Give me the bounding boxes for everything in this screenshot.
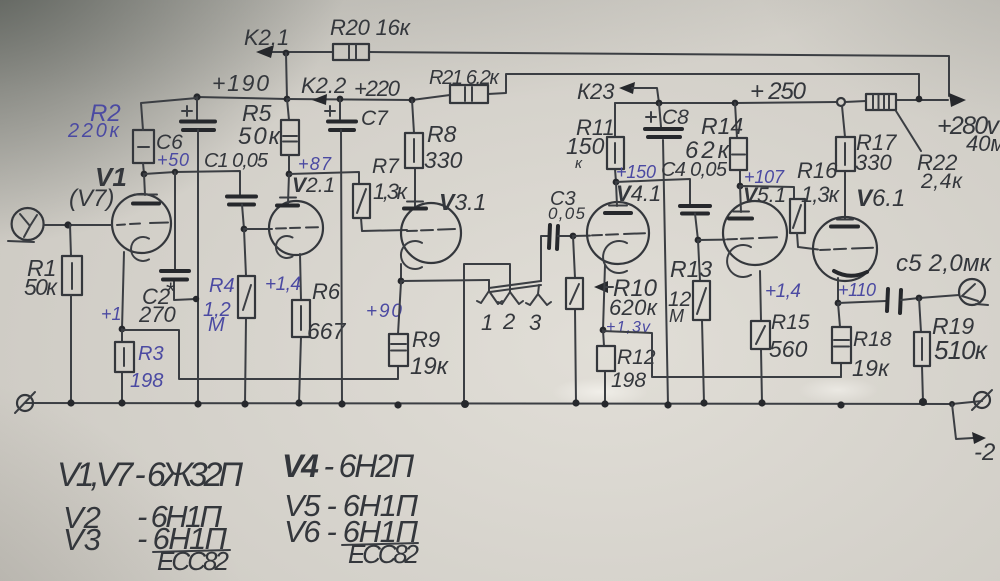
tube V5 grid dashes (727, 237, 777, 239)
svg-text:620к: 620к (609, 295, 659, 320)
ground symbol left (17, 395, 33, 411)
svg-text:2: 2 (502, 309, 515, 334)
svg-text:62к: 62к (685, 137, 731, 164)
wire R5 bottom to V2 anode node (288, 155, 290, 174)
svg-text:R14: R14 (701, 113, 743, 139)
svg-text:к: к (575, 155, 583, 172)
wire +1 feedback L-line to R9 bottom (122, 330, 398, 379)
R22 pointer line (896, 111, 921, 151)
wire R2 top to +190 (141, 98, 197, 130)
wire grid node into V4 (573, 235, 590, 237)
capacitor C7 stem (339, 99, 341, 119)
wire pin3 riser to C3 (541, 236, 548, 281)
node K2.1 arrow (256, 45, 274, 58)
tube V6 envelope (813, 217, 877, 281)
wire K23 to +250 (632, 88, 659, 103)
wire V1 cathode down (122, 252, 124, 329)
node R17 open circle (837, 98, 845, 106)
svg-text:50к: 50к (24, 274, 58, 300)
wire anode node to C1 (144, 171, 240, 196)
junction C2 to ground line (193, 296, 199, 302)
resistor R12 (597, 346, 615, 371)
resistor R11 (607, 137, 624, 169)
tube V5 cathode arc (727, 245, 751, 277)
svg-text:+ 250: + 250 (750, 78, 807, 105)
svg-text:R12: R12 (617, 346, 656, 369)
resistor R8 (405, 133, 423, 168)
pin 2 (498, 283, 523, 304)
svg-text:-2: -2 (974, 439, 995, 466)
svg-text:K2.1: K2.1 (244, 25, 289, 50)
wire C5 to output node (901, 295, 959, 300)
svg-text:+190: +190 (212, 70, 269, 96)
tube V5 anode (733, 186, 749, 212)
wire V3 cathode node (400, 264, 402, 281)
tube V1 cathode arc (131, 237, 149, 261)
wire +220 line to R21 and feedback riser (287, 74, 919, 100)
wire +190 bus (197, 97, 287, 99)
tube V6 grid dashes (820, 248, 873, 250)
junction R8 tap (409, 97, 416, 104)
svg-text:330: 330 (424, 147, 463, 173)
svg-text:*: * (165, 278, 175, 305)
wire node to R12 (603, 330, 605, 404)
svg-text:R21 6.2к: R21 6.2к (429, 67, 501, 89)
junction R14 node (732, 100, 739, 107)
svg-text:1: 1 (481, 310, 493, 335)
svg-text:0,05: 0,05 (548, 204, 586, 223)
svg-text:510к: 510к (934, 335, 989, 365)
junction C8 node (656, 100, 663, 107)
ground symbol right (974, 392, 990, 408)
junction V4 grid node (570, 233, 577, 240)
capacitor C2 plates (161, 271, 189, 280)
capacitor C4 plates (680, 206, 710, 214)
wire anode node to R7 (289, 172, 359, 184)
resistor R10 (566, 278, 583, 309)
wire R11 stem (615, 103, 616, 182)
svg-text:667: 667 (307, 318, 347, 344)
svg-text:C8: C8 (662, 106, 689, 129)
svg-text:198: 198 (130, 370, 163, 392)
wire R7 bottom to V3 grid (361, 218, 407, 231)
svg-text:+1,4: +1,4 (265, 274, 301, 295)
output connector X2 (959, 279, 985, 305)
svg-text:+150: +150 (616, 162, 656, 182)
tube V4 anode (609, 182, 627, 206)
junction V5 anode node (737, 183, 744, 190)
resistor R21 (450, 85, 488, 103)
svg-text:R4: R4 (209, 275, 235, 297)
junction V5 grid node (695, 237, 702, 244)
wire R12 branch to line B (603, 331, 841, 377)
wire anode node to R16 (740, 186, 794, 199)
resistor R16 (790, 199, 805, 233)
resistor R4 (238, 276, 255, 318)
wire R19 stem (919, 298, 923, 402)
wire C6 to ground vertical (197, 130, 199, 404)
svg-text:R13: R13 (670, 256, 712, 282)
tube V3 anode (407, 201, 423, 203)
resistor R2 (133, 130, 154, 163)
svg-text:V2.1: V2.1 (292, 174, 335, 197)
tube V3 envelope (401, 203, 461, 263)
svg-text:1,3к: 1,3к (373, 179, 409, 204)
wire node to R18 (838, 303, 841, 377)
node K2.2 arrow (312, 94, 327, 105)
wire R2 bottom junction (143, 163, 144, 174)
junction +1,3 node (600, 327, 607, 334)
svg-text:270: 270 (138, 302, 176, 327)
wire grid node into V2 (244, 228, 272, 230)
svg-text:V6.1: V6.1 (856, 185, 905, 212)
capacitor C7 plates (328, 122, 356, 131)
svg-text:3: 3 (529, 310, 542, 335)
capacitor C1 plates (227, 197, 256, 205)
junction R19 node (916, 295, 923, 302)
svg-text:150: 150 (566, 133, 605, 159)
wire grid node down to R1 (70, 225, 71, 256)
svg-text:1,3к: 1,3к (801, 182, 841, 207)
resistor R5 (281, 120, 299, 155)
wire grid node into V5 (698, 239, 725, 241)
svg-text:R8: R8 (427, 121, 457, 147)
capacitor C8 stem (659, 103, 661, 127)
R10 pointer arrow (594, 281, 608, 293)
wire V2 cathode to R6 (299, 254, 301, 403)
svg-text:C7: C7 (361, 107, 389, 130)
wire R16 to V6 grid (797, 233, 818, 250)
wire -2 branch (952, 404, 973, 439)
wire V3 cathode to splitter pins (401, 280, 489, 281)
wire top feedback line from K2.1 through R20 to +280 (262, 52, 949, 96)
junction +190 right (284, 96, 291, 103)
wire C7 to ground (341, 130, 342, 404)
svg-text:198: 198 (611, 369, 646, 392)
tube V2 cathode arc (276, 236, 293, 258)
svg-text:R15: R15 (771, 311, 810, 334)
splitter frame (464, 264, 510, 403)
wire +250 rail (615, 100, 948, 103)
wire C4 to V5 grid node (695, 214, 698, 241)
junction C7 tap (337, 96, 344, 103)
junction V2 grid node (241, 226, 248, 233)
resistor R7 (353, 184, 370, 218)
tube V4 grid dashes (592, 233, 645, 235)
wire K2.1 drop to +190 bus (286, 53, 287, 99)
resistor R3 (115, 342, 134, 372)
svg-text:C1 0,05: C1 0,05 (204, 150, 269, 172)
svg-text:50к: 50к (238, 123, 282, 150)
svg-text:V3.1: V3.1 (439, 189, 486, 215)
junction R22 right (916, 96, 923, 103)
node K23 arrow (619, 82, 635, 94)
svg-text:V4 - 6Н2П: V4 - 6Н2П (282, 448, 415, 484)
tube V1 anode plate (133, 202, 159, 206)
svg-text:R20 16к: R20 16к (330, 15, 412, 40)
wire grid node down to R13 (698, 240, 704, 403)
wire grid node down to R4 (244, 229, 246, 404)
tube V2 anode stem (280, 174, 296, 203)
svg-text:40м: 40м (966, 131, 1000, 156)
wire V4 cathode down (603, 265, 605, 330)
svg-text:R3: R3 (138, 343, 164, 365)
svg-text:+1,4: +1,4 (765, 281, 801, 302)
-2 arrow (972, 432, 986, 444)
junction +110 node (835, 300, 842, 307)
resistor R5 top stem (287, 99, 289, 120)
input connector X1 (12, 208, 44, 240)
wire +110 node to C5 (838, 301, 886, 303)
svg-text:V3: V3 (63, 522, 101, 557)
pin 3 (526, 285, 551, 305)
svg-text:V1,V7 - 6Ж32П: V1,V7 - 6Ж32П (57, 456, 243, 494)
resistor R22 (866, 94, 896, 110)
wire cathode to R9 (398, 282, 401, 334)
svg-text:+110: +110 (838, 280, 876, 300)
svg-text:+90: +90 (366, 301, 402, 322)
resistor R14 (730, 138, 747, 170)
svg-text:560: 560 (769, 336, 808, 362)
tube V6 anode (837, 219, 853, 221)
pin 1 (477, 280, 502, 304)
capacitor C5 (887, 289, 901, 313)
svg-text:+1: +1 (101, 304, 122, 324)
+280 arrow (949, 93, 966, 107)
svg-text:2,4к: 2,4к (920, 170, 963, 193)
resistor R17 (836, 137, 855, 171)
capacitor C8 plates (645, 129, 682, 137)
ground bus (25, 401, 982, 404)
resistor R9 (389, 334, 408, 366)
tube V3 grid dashes (407, 229, 455, 231)
resistor R19 (914, 332, 930, 366)
svg-text:(V7): (V7) (69, 185, 114, 212)
resistor R13 (693, 281, 710, 320)
tube V2 grid dashes (276, 227, 318, 228)
capacitor C6 (181, 122, 215, 131)
wire C3 to V4 grid node (558, 235, 573, 237)
svg-text:M: M (208, 314, 225, 336)
svg-text:R7: R7 (372, 155, 400, 178)
tube V6 cathode plate (834, 271, 867, 276)
wire C8 to ground (663, 140, 668, 405)
wire grid node down through R10 (573, 236, 576, 403)
junction +190 left (193, 93, 200, 100)
tube V1 grid dashes (117, 223, 168, 226)
svg-text:c5 2,0мк: c5 2,0мк (896, 250, 993, 277)
tube V3 cathode arc (401, 241, 422, 269)
wire cathode node to R3 (121, 329, 123, 403)
svg-text:K2.2: K2.2 (301, 73, 346, 98)
svg-text:ЕСС82: ЕСС82 (157, 546, 230, 576)
svg-text:M: M (669, 306, 684, 326)
wire anode node to C4 (616, 179, 690, 204)
resistor R15 (751, 321, 770, 349)
wire input to grid node (44, 224, 112, 226)
wire V5 cathode to R15 (760, 271, 762, 403)
resistor R18 (832, 327, 851, 363)
tube V2 envelope (269, 201, 323, 255)
tube V1 envelope (112, 194, 171, 253)
tube V2 anode plate (277, 204, 298, 208)
splitter twisted pair (489, 281, 541, 292)
svg-text:ЕСС82: ЕСС82 (348, 539, 420, 569)
wire V6 cathode node (837, 278, 839, 303)
svg-text:R9: R9 (412, 327, 440, 352)
svg-text:19к: 19к (852, 355, 890, 381)
capacitor C2 stem (174, 172, 196, 300)
wire R1 to ground bus (70, 295, 72, 403)
resistor R6 (292, 300, 310, 337)
tube V4 envelope (587, 202, 649, 264)
svg-text:+50: +50 (157, 150, 189, 170)
capacitor C6 stem top (196, 97, 198, 119)
junction V1 anode node (141, 171, 148, 178)
bus junction dots (67, 399, 74, 406)
resistor R20 (333, 44, 369, 60)
wire R17 stem (842, 106, 845, 219)
svg-text:+87: +87 (298, 154, 332, 174)
wire R14 stem (735, 103, 740, 186)
tube V5 envelope (723, 201, 787, 265)
wire C1 to V2 grid node (242, 205, 244, 230)
resistor R1 (62, 256, 82, 295)
junction V3 cathode (398, 278, 405, 285)
svg-text:R18: R18 (853, 328, 892, 351)
svg-text:К23: К23 (577, 79, 615, 104)
junction V2 anode node (286, 171, 293, 178)
svg-text:330: 330 (855, 150, 892, 175)
svg-text:R6: R6 (312, 279, 341, 304)
svg-text:+220: +220 (354, 76, 401, 101)
svg-text:R16: R16 (797, 158, 838, 183)
svg-text:19к: 19к (410, 353, 450, 380)
tube V1 anode stem (135, 174, 157, 195)
tube V4 cathode arc (603, 241, 627, 273)
capacitor C3 (549, 225, 558, 249)
wire R8 stem (412, 100, 415, 207)
junction K2.1 (283, 50, 290, 57)
junction V4 anode node (613, 179, 620, 186)
junction input node (64, 221, 71, 228)
junction cathode +1 node (119, 326, 126, 333)
junction C2 tap (172, 169, 178, 175)
